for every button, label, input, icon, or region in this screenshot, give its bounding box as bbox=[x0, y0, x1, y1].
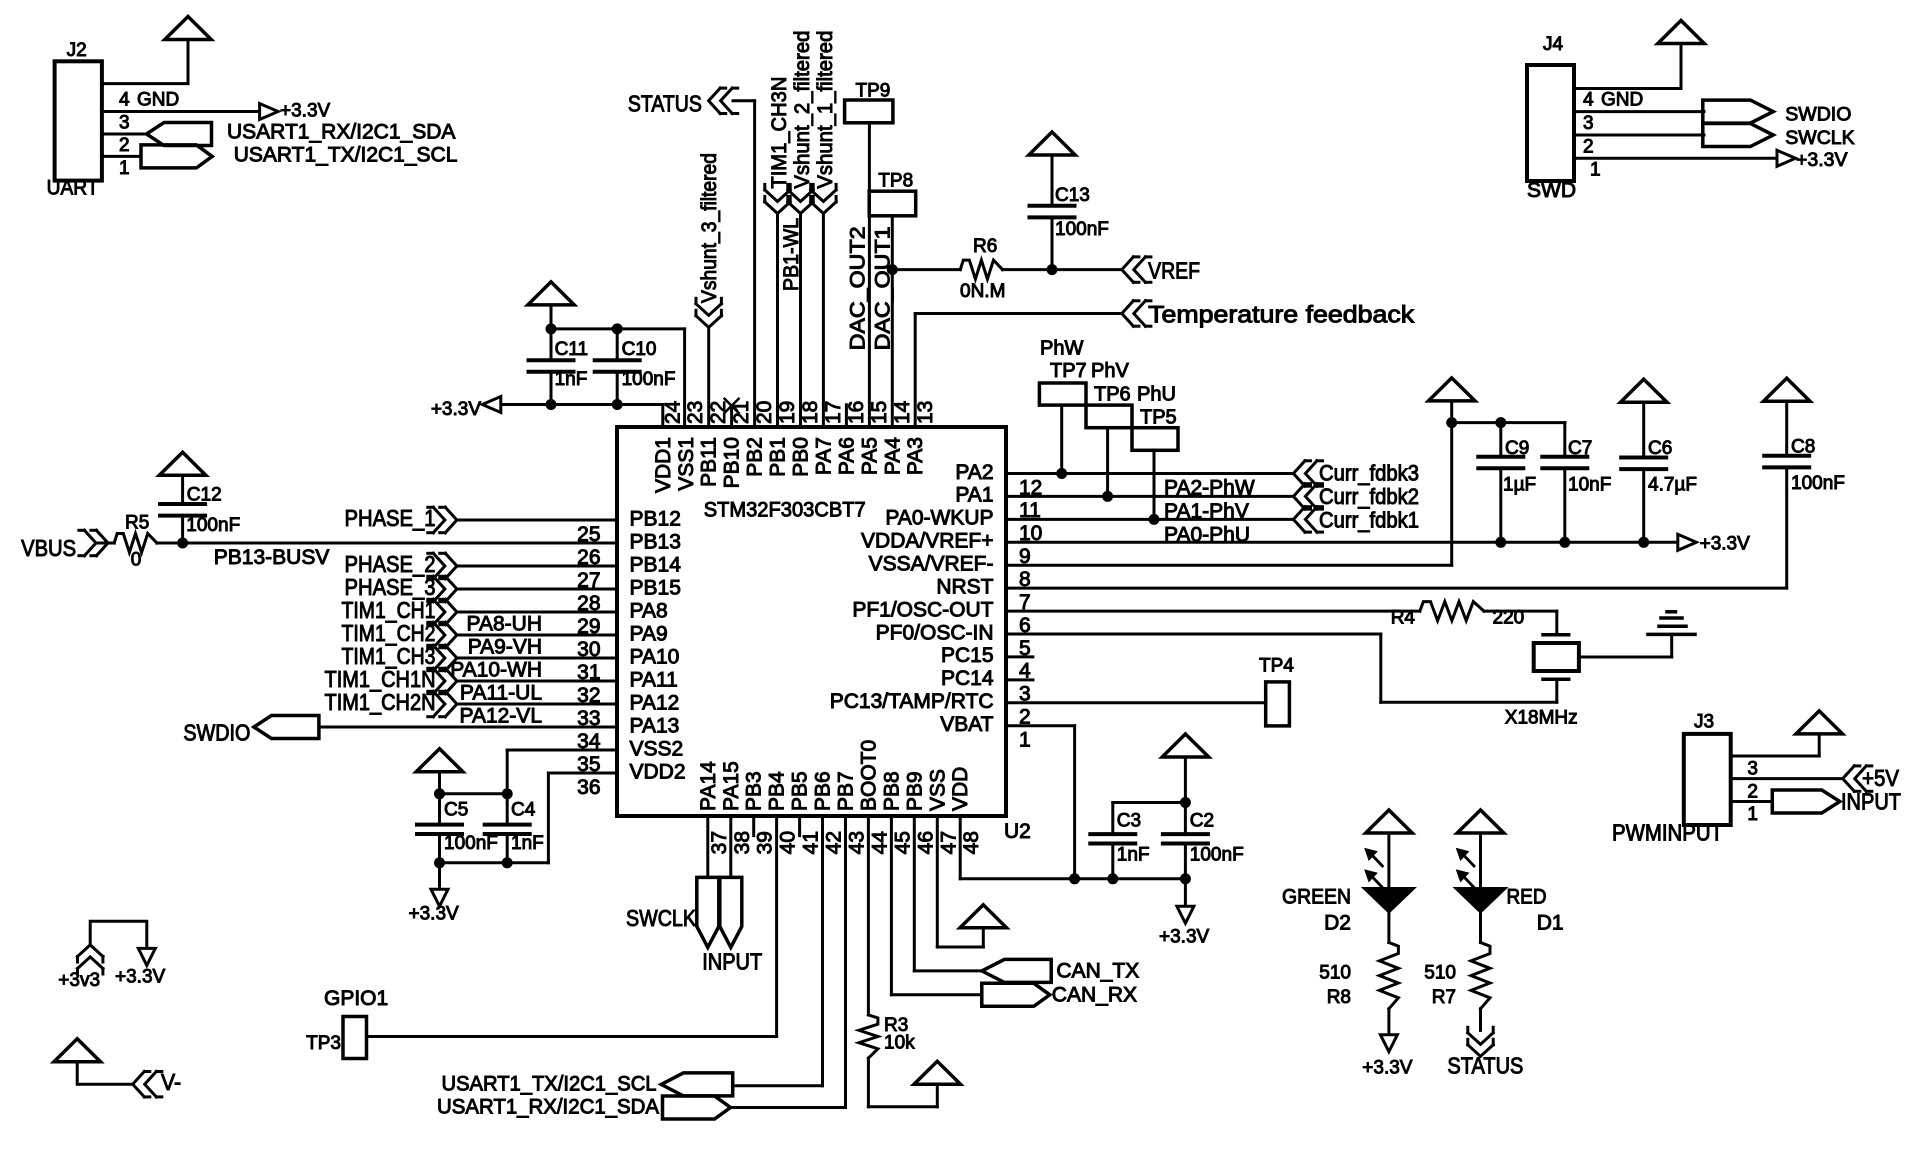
svg-text:CAN_TX: CAN_TX bbox=[1056, 960, 1139, 983]
svg-text:PA11-UL: PA11-UL bbox=[460, 682, 542, 705]
svg-text:510: 510 bbox=[1424, 963, 1456, 984]
svg-text:C8: C8 bbox=[1791, 437, 1815, 458]
svg-text:3: 3 bbox=[1747, 759, 1758, 780]
svg-text:PhW: PhW bbox=[1040, 337, 1083, 359]
svg-text:PA8-UH: PA8-UH bbox=[467, 613, 542, 636]
svg-text:37: 37 bbox=[708, 831, 731, 854]
svg-text:2: 2 bbox=[1583, 136, 1594, 157]
svg-text:PB1: PB1 bbox=[767, 437, 790, 477]
svg-text:100nF: 100nF bbox=[1055, 219, 1109, 240]
svg-text:16: 16 bbox=[845, 401, 868, 424]
svg-text:+3.3V: +3.3V bbox=[431, 399, 482, 420]
svg-text:CAN_RX: CAN_RX bbox=[1052, 983, 1137, 1006]
svg-text:PC15: PC15 bbox=[941, 644, 994, 667]
svg-text:45: 45 bbox=[891, 831, 914, 854]
svg-text:VREF: VREF bbox=[1148, 258, 1200, 284]
svg-text:VBUS: VBUS bbox=[21, 535, 76, 561]
svg-text:24: 24 bbox=[661, 400, 684, 424]
svg-text:V-: V- bbox=[161, 1069, 181, 1095]
svg-text:PB12: PB12 bbox=[630, 507, 681, 530]
svg-text:10nF: 10nF bbox=[1568, 475, 1611, 496]
svg-text:R8: R8 bbox=[1327, 987, 1351, 1008]
svg-text:1: 1 bbox=[119, 158, 130, 179]
svg-text:PA6: PA6 bbox=[835, 437, 858, 475]
svg-text:PB6: PB6 bbox=[812, 771, 835, 811]
svg-text:PWMINPUT: PWMINPUT bbox=[1612, 820, 1723, 846]
svg-text:19: 19 bbox=[776, 401, 799, 424]
svg-text:1: 1 bbox=[1019, 729, 1031, 752]
svg-text:220: 220 bbox=[1493, 608, 1525, 629]
svg-text:23: 23 bbox=[684, 401, 707, 424]
svg-text:R6: R6 bbox=[973, 236, 997, 257]
svg-text:R7: R7 bbox=[1432, 987, 1456, 1008]
svg-text:36: 36 bbox=[577, 776, 600, 799]
svg-text:BOOT0: BOOT0 bbox=[857, 740, 880, 811]
svg-text:14: 14 bbox=[891, 400, 914, 424]
svg-text:18: 18 bbox=[799, 401, 822, 424]
svg-text:D1: D1 bbox=[1537, 912, 1564, 935]
svg-text:VDDA/VREF+: VDDA/VREF+ bbox=[861, 530, 993, 553]
svg-text:1: 1 bbox=[1590, 160, 1601, 181]
svg-text:J4: J4 bbox=[1543, 34, 1564, 55]
svg-text:20: 20 bbox=[753, 401, 776, 424]
svg-text:100nF: 100nF bbox=[186, 515, 240, 536]
svg-text:USART1_RX/I2C1_SDA: USART1_RX/I2C1_SDA bbox=[437, 1096, 659, 1119]
svg-text:USART1_TX/I2C1_SCL: USART1_TX/I2C1_SCL bbox=[442, 1073, 657, 1096]
svg-text:Temperature feedback: Temperature feedback bbox=[1148, 301, 1415, 328]
svg-text:PB11: PB11 bbox=[698, 437, 721, 487]
svg-text:Vshunt_2_filtered: Vshunt_2_filtered bbox=[791, 31, 814, 189]
svg-text:PA2: PA2 bbox=[955, 461, 993, 484]
svg-text:STM32F303CBT7: STM32F303CBT7 bbox=[704, 499, 866, 522]
svg-text:SWDIO: SWDIO bbox=[183, 719, 250, 745]
svg-text:TIM1_CH3N: TIM1_CH3N bbox=[768, 77, 791, 189]
svg-text:VDD1: VDD1 bbox=[652, 437, 675, 493]
svg-text:GPIO1: GPIO1 bbox=[324, 987, 388, 1010]
svg-text:PB15: PB15 bbox=[630, 576, 681, 599]
svg-text:PB5: PB5 bbox=[789, 771, 812, 811]
svg-text:PB9: PB9 bbox=[903, 771, 926, 811]
svg-text:PB2: PB2 bbox=[744, 437, 767, 477]
svg-text:0: 0 bbox=[131, 550, 142, 571]
svg-text:TP6: TP6 bbox=[1094, 384, 1131, 406]
svg-text:VDD: VDD bbox=[949, 767, 972, 811]
svg-text:PF1/OSC-OUT: PF1/OSC-OUT bbox=[852, 598, 993, 621]
svg-text:PA1: PA1 bbox=[955, 484, 993, 507]
svg-text:USART1_RX/I2C1_SDA: USART1_RX/I2C1_SDA bbox=[227, 121, 455, 144]
svg-text:PA7: PA7 bbox=[812, 437, 835, 475]
svg-text:Curr_fdbk2: Curr_fdbk2 bbox=[1319, 484, 1419, 509]
svg-text:PB14: PB14 bbox=[630, 553, 682, 576]
svg-text:46: 46 bbox=[914, 831, 937, 854]
svg-text:43: 43 bbox=[846, 831, 869, 854]
svg-text:PB1-WL: PB1-WL bbox=[780, 218, 803, 291]
svg-text:GREEN: GREEN bbox=[1282, 886, 1351, 909]
svg-text:PB3: PB3 bbox=[743, 771, 766, 811]
svg-text:C10: C10 bbox=[622, 339, 657, 360]
svg-text:PB13-BUSV: PB13-BUSV bbox=[214, 546, 330, 569]
svg-text:PA14: PA14 bbox=[697, 761, 720, 811]
svg-text:1nF: 1nF bbox=[511, 833, 544, 854]
svg-text:VSS1: VSS1 bbox=[675, 437, 698, 491]
svg-text:+5V: +5V bbox=[1862, 765, 1900, 791]
svg-text:PC14: PC14 bbox=[941, 667, 994, 690]
svg-text:3: 3 bbox=[119, 113, 130, 134]
svg-text:+3.3V: +3.3V bbox=[1796, 149, 1848, 171]
svg-text:PA10: PA10 bbox=[630, 645, 680, 668]
svg-text:U2: U2 bbox=[1004, 820, 1031, 843]
svg-text:TP8: TP8 bbox=[878, 171, 913, 192]
svg-text:UART: UART bbox=[47, 177, 99, 200]
svg-text:SWCLK: SWCLK bbox=[626, 905, 697, 931]
svg-text:13: 13 bbox=[914, 401, 937, 424]
svg-text:C11: C11 bbox=[555, 339, 588, 360]
svg-text:PA0-WKUP: PA0-WKUP bbox=[885, 507, 993, 530]
svg-text:TIM1_CH2N: TIM1_CH2N bbox=[325, 689, 436, 715]
svg-text:PA12-VL: PA12-VL bbox=[460, 705, 543, 728]
svg-text:TP5: TP5 bbox=[1140, 407, 1177, 429]
svg-text:15: 15 bbox=[868, 401, 891, 424]
svg-text:INPUT: INPUT bbox=[702, 949, 762, 975]
svg-text:J2: J2 bbox=[67, 40, 87, 61]
svg-text:GND: GND bbox=[137, 90, 179, 111]
svg-text:GND: GND bbox=[1601, 90, 1643, 111]
svg-text:3: 3 bbox=[1583, 113, 1594, 134]
svg-text:SWCLK: SWCLK bbox=[1785, 127, 1854, 149]
svg-text:TP7: TP7 bbox=[1050, 360, 1087, 382]
svg-text:PA2-PhW: PA2-PhW bbox=[1164, 477, 1255, 500]
svg-text:39: 39 bbox=[754, 831, 777, 854]
svg-text:C5: C5 bbox=[444, 800, 468, 821]
svg-text:100nF: 100nF bbox=[444, 833, 498, 854]
svg-text:47: 47 bbox=[937, 831, 960, 854]
svg-text:PB10: PB10 bbox=[721, 437, 744, 488]
svg-text:1: 1 bbox=[1747, 804, 1758, 825]
svg-text:PB13: PB13 bbox=[630, 530, 681, 553]
svg-text:DAC_OUT1: DAC_OUT1 bbox=[871, 226, 894, 350]
svg-text:+3v3: +3v3 bbox=[58, 970, 100, 991]
svg-text:PB4: PB4 bbox=[766, 771, 789, 811]
svg-text:TP9: TP9 bbox=[856, 80, 891, 101]
svg-text:C4: C4 bbox=[511, 800, 536, 821]
svg-text:PA10-WH: PA10-WH bbox=[450, 659, 542, 682]
svg-text:+3.3V: +3.3V bbox=[1700, 534, 1751, 555]
svg-text:VSS2: VSS2 bbox=[630, 737, 684, 760]
svg-text:+3.3V: +3.3V bbox=[1362, 1058, 1413, 1079]
svg-text:PhU: PhU bbox=[1137, 384, 1176, 406]
svg-text:PA9-VH: PA9-VH bbox=[468, 636, 542, 659]
svg-text:PA5: PA5 bbox=[858, 437, 881, 475]
svg-text:+3.3V: +3.3V bbox=[280, 101, 331, 122]
svg-text:10k: 10k bbox=[884, 1033, 915, 1054]
svg-text:STATUS: STATUS bbox=[628, 91, 702, 117]
svg-text:Curr_fdbk3: Curr_fdbk3 bbox=[1319, 461, 1419, 486]
svg-text:Vshunt_3_filtered: Vshunt_3_filtered bbox=[698, 153, 721, 303]
svg-text:Vshunt_1_filtered: Vshunt_1_filtered bbox=[814, 31, 837, 189]
svg-text:USART1_TX/I2C1_SCL: USART1_TX/I2C1_SCL bbox=[234, 144, 458, 167]
svg-text:SWD: SWD bbox=[1527, 179, 1576, 202]
svg-text:100nF: 100nF bbox=[622, 369, 676, 390]
svg-text:PA15: PA15 bbox=[720, 761, 743, 811]
svg-text:Curr_fdbk1: Curr_fdbk1 bbox=[1319, 507, 1419, 532]
svg-text:+3.3V: +3.3V bbox=[1159, 927, 1210, 948]
svg-text:PhV: PhV bbox=[1091, 360, 1129, 382]
svg-text:C9: C9 bbox=[1505, 438, 1529, 459]
svg-text:INPUT: INPUT bbox=[1841, 788, 1901, 814]
svg-text:2: 2 bbox=[1747, 782, 1758, 803]
svg-text:PA9: PA9 bbox=[630, 622, 668, 645]
svg-text:PB7: PB7 bbox=[835, 771, 858, 811]
svg-text:1nF: 1nF bbox=[1117, 845, 1150, 866]
svg-text:VDD2: VDD2 bbox=[630, 760, 686, 783]
svg-text:DAC_OUT2: DAC_OUT2 bbox=[846, 226, 869, 350]
svg-text:VBAT: VBAT bbox=[940, 713, 993, 736]
svg-text:C3: C3 bbox=[1117, 811, 1141, 832]
svg-text:PA8: PA8 bbox=[630, 599, 668, 622]
svg-text:4.7µF: 4.7µF bbox=[1648, 475, 1697, 496]
svg-text:PA11: PA11 bbox=[630, 668, 678, 691]
svg-text:PA13: PA13 bbox=[630, 714, 680, 737]
svg-text:X18MHz: X18MHz bbox=[1505, 707, 1578, 728]
svg-text:STATUS: STATUS bbox=[1447, 1053, 1523, 1079]
svg-text:38: 38 bbox=[731, 831, 754, 854]
svg-text:R5: R5 bbox=[125, 512, 149, 533]
svg-text:PF0/OSC-IN: PF0/OSC-IN bbox=[876, 621, 994, 644]
svg-text:510: 510 bbox=[1319, 963, 1351, 984]
svg-text:PB8: PB8 bbox=[880, 771, 903, 811]
svg-text:C13: C13 bbox=[1055, 185, 1090, 206]
svg-text:40: 40 bbox=[777, 831, 800, 854]
svg-text:SWDIO: SWDIO bbox=[1785, 104, 1851, 126]
svg-text:4: 4 bbox=[1583, 90, 1594, 111]
svg-text:NRST: NRST bbox=[936, 575, 993, 598]
svg-text:41: 41 bbox=[800, 831, 823, 854]
svg-text:PA4: PA4 bbox=[881, 437, 904, 475]
svg-text:44: 44 bbox=[868, 831, 891, 855]
svg-text:100nF: 100nF bbox=[1791, 473, 1845, 494]
svg-text:J3: J3 bbox=[1694, 711, 1714, 732]
svg-text:C6: C6 bbox=[1648, 438, 1672, 459]
svg-text:PC13/TAMP/RTC: PC13/TAMP/RTC bbox=[830, 690, 994, 713]
svg-text:PA3: PA3 bbox=[904, 437, 927, 475]
svg-text:17: 17 bbox=[822, 401, 845, 424]
svg-text:TP3: TP3 bbox=[306, 1033, 341, 1054]
svg-text:1nF: 1nF bbox=[555, 369, 588, 390]
svg-text:+3.3V: +3.3V bbox=[409, 904, 460, 925]
svg-text:42: 42 bbox=[823, 831, 846, 854]
svg-text:PA1-PhV: PA1-PhV bbox=[1164, 500, 1249, 523]
svg-text:C7: C7 bbox=[1568, 438, 1592, 459]
svg-text:D2: D2 bbox=[1324, 912, 1351, 935]
svg-text:48: 48 bbox=[960, 831, 983, 854]
svg-text:4: 4 bbox=[119, 90, 130, 111]
svg-text:C2: C2 bbox=[1190, 811, 1214, 832]
svg-text:PHASE_1: PHASE_1 bbox=[345, 505, 436, 531]
svg-text:PB0: PB0 bbox=[790, 437, 813, 477]
svg-text:100nF: 100nF bbox=[1190, 845, 1244, 866]
svg-text:+3.3V: +3.3V bbox=[115, 967, 166, 988]
svg-text:VSS: VSS bbox=[926, 769, 949, 811]
svg-text:0N.M: 0N.M bbox=[960, 281, 1005, 302]
svg-text:1µF: 1µF bbox=[1503, 475, 1536, 496]
svg-text:RED: RED bbox=[1507, 886, 1547, 909]
svg-text:VSSA/VREF-: VSSA/VREF- bbox=[869, 553, 994, 576]
svg-text:TP4: TP4 bbox=[1259, 656, 1294, 677]
svg-text:C12: C12 bbox=[187, 485, 222, 506]
svg-text:2: 2 bbox=[119, 135, 130, 156]
svg-text:PA12: PA12 bbox=[630, 691, 680, 714]
svg-text:R4: R4 bbox=[1391, 608, 1416, 629]
